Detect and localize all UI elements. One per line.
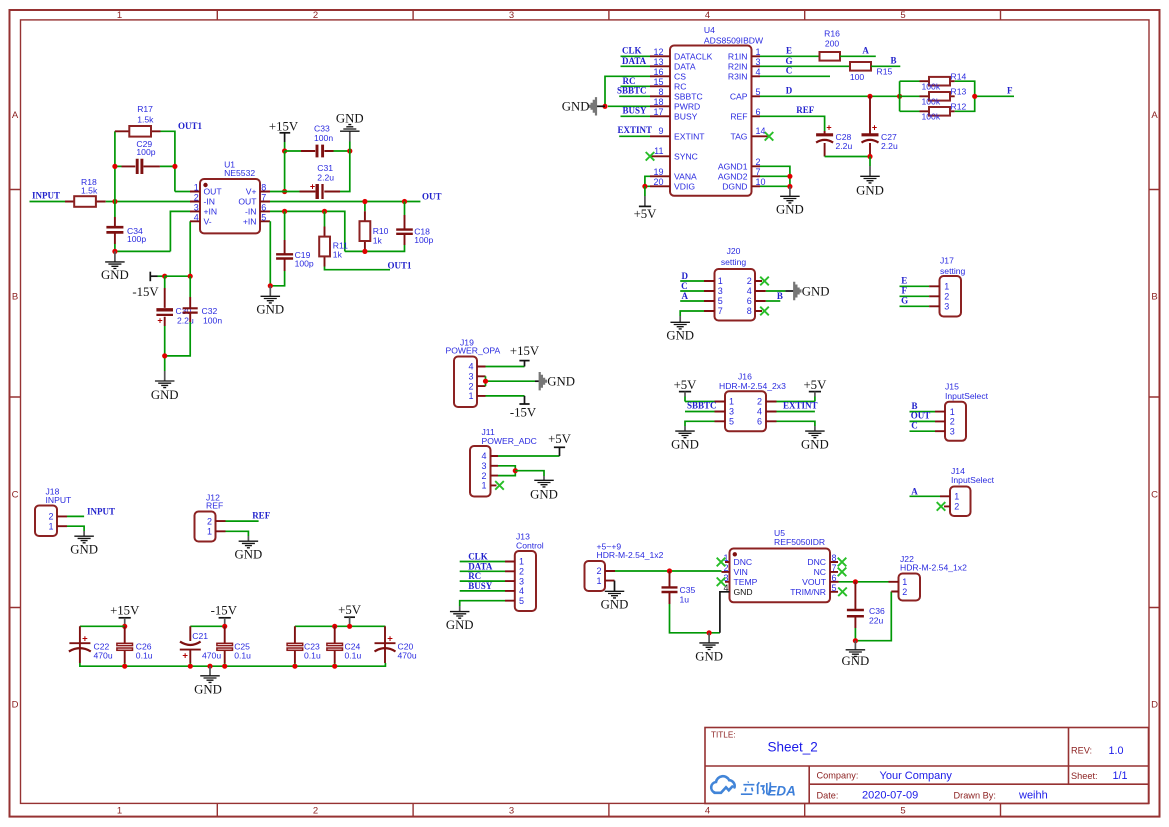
junction C23 bottom: [292, 664, 297, 669]
capacitor C36: [847, 582, 885, 628]
svg-text:-15V: -15V: [211, 603, 238, 617]
svg-text:DGND: DGND: [722, 181, 747, 191]
junction C19 tap: [282, 209, 287, 214]
svg-text:470u: 470u: [94, 651, 113, 661]
svg-text:OUT: OUT: [238, 197, 257, 207]
svg-text:+5V: +5V: [803, 378, 827, 392]
svg-text:1: 1: [950, 407, 955, 417]
resistor R18: [65, 177, 106, 207]
svg-text:4: 4: [756, 67, 761, 77]
connector J11 POWER_ADC: [470, 427, 537, 496]
no-connect J20 pin2: [760, 277, 769, 286]
wire left feedback column: [114, 131, 116, 201]
ground J18: [70, 531, 98, 557]
svg-text:2: 2: [757, 397, 762, 407]
capacitor C18: [396, 202, 433, 246]
connector J18 INPUT: [35, 487, 72, 537]
wire pin1 entry: [175, 191, 190, 193]
resistor R17: [115, 104, 161, 137]
svg-text:B: B: [890, 56, 896, 66]
no-connect J11 pin1: [495, 481, 504, 490]
svg-text:+5V: +5V: [338, 603, 362, 617]
wire AGND rail: [760, 166, 790, 186]
ground C19: [256, 286, 284, 317]
svg-text:GND: GND: [530, 488, 558, 502]
svg-text:AGND2: AGND2: [718, 171, 748, 181]
wire J16 pin3 SBBTC: [685, 411, 715, 413]
svg-text:InputSelect: InputSelect: [951, 475, 995, 485]
wire pin6: [270, 211, 345, 251]
svg-text:InputSelect: InputSelect: [945, 391, 989, 401]
frame row letters right: [1151, 110, 1158, 711]
svg-text:2.2u: 2.2u: [177, 316, 194, 326]
junction C18 top: [402, 199, 407, 204]
svg-text:TITLE:: TITLE:: [711, 731, 736, 740]
capacitor C31 polarized: [300, 163, 341, 199]
svg-text:-15V: -15V: [132, 285, 159, 299]
svg-text:5: 5: [832, 583, 837, 593]
svg-text:J20: J20: [727, 246, 741, 256]
svg-text:REF: REF: [206, 501, 223, 511]
svg-text:D: D: [682, 271, 689, 281]
wire J12 pin2 REF: [226, 520, 259, 522]
wire J11 pins 3 2 mid: [498, 466, 515, 476]
svg-text:GND: GND: [70, 543, 98, 557]
ground J16 right: [801, 426, 829, 452]
svg-text:A: A: [911, 486, 918, 496]
svg-text:+IN: +IN: [243, 216, 257, 226]
svg-text:+5V: +5V: [674, 378, 698, 392]
svg-text:8: 8: [261, 183, 266, 193]
wire J17 pin1 E: [900, 285, 930, 287]
wire J12 pin1 gnd: [226, 531, 249, 536]
svg-text:GND: GND: [802, 284, 830, 298]
wire J11 gnd link: [515, 471, 544, 476]
ground C34: [101, 251, 129, 282]
wire J16 pin1: [685, 401, 715, 403]
svg-text:-IN: -IN: [245, 206, 256, 216]
svg-text:100k: 100k: [922, 97, 941, 107]
wire J19 pin1 -15V: [486, 395, 525, 397]
wire C28 bottom to gnd node: [825, 156, 870, 158]
wire J20 pin4 gnd: [766, 290, 786, 292]
junction +15V C33 tap: [282, 148, 287, 153]
junction C24 bottom: [332, 664, 337, 669]
connector J17 setting: [929, 256, 965, 317]
svg-text:HDR-M-2.54_1x2: HDR-M-2.54_1x2: [900, 563, 967, 573]
ground C36: [842, 641, 870, 668]
svg-text:A: A: [682, 291, 689, 301]
wire J20 pin5 A: [680, 300, 704, 302]
resistor R14: [920, 72, 967, 92]
svg-text:CAP: CAP: [730, 91, 748, 101]
svg-text:4: 4: [481, 451, 486, 461]
connector J15 InputSelect: [935, 381, 989, 441]
connector J13 Control: [505, 531, 544, 611]
wire R11 to OUT1: [325, 267, 391, 270]
wire R2IN G: [760, 65, 850, 67]
svg-text:CLK: CLK: [622, 45, 642, 55]
svg-text:setting: setting: [721, 257, 747, 267]
svg-text:E: E: [901, 276, 907, 286]
ground bank: [194, 666, 222, 696]
svg-text:BUSY: BUSY: [468, 581, 493, 591]
svg-text:1.0: 1.0: [1109, 745, 1124, 757]
wire J13 pin4 BUSY: [460, 590, 505, 592]
svg-text:DNC: DNC: [734, 557, 753, 567]
svg-text:GND: GND: [547, 375, 575, 389]
svg-text:100p: 100p: [295, 259, 314, 269]
svg-text:V-: V-: [204, 216, 212, 226]
svg-text:EXTINT: EXTINT: [674, 131, 705, 141]
wire J18 pin2 INPUT: [67, 515, 84, 517]
ground flag J19: [535, 372, 575, 390]
svg-text:2020-07-09: 2020-07-09: [862, 790, 918, 802]
no-connect U5 pin7: [838, 568, 847, 577]
ground C27 C28: [856, 157, 884, 198]
svg-text:GND: GND: [446, 618, 474, 632]
wire J18 pin1 gnd: [67, 526, 84, 531]
junction pin5 gnd node: [268, 283, 273, 288]
wire header pin2 to VIN: [615, 570, 722, 572]
svg-text:CLK: CLK: [468, 552, 488, 562]
junction C21 bottom: [188, 664, 193, 669]
frame row ticks left: [10, 190, 21, 608]
svg-text:2: 2: [313, 10, 318, 21]
capacitor C33: [285, 124, 350, 158]
svg-text:100n: 100n: [203, 316, 222, 326]
svg-text:5: 5: [519, 596, 524, 606]
svg-text:2: 2: [902, 587, 907, 597]
svg-text:GND: GND: [101, 268, 129, 282]
svg-text:R15: R15: [877, 67, 893, 77]
capacitor C22 polarized: [69, 626, 113, 663]
svg-text:2: 2: [48, 512, 53, 522]
junction U5 gnd rail: [707, 630, 712, 635]
ground J16 left: [671, 426, 699, 452]
svg-text:GND: GND: [666, 329, 694, 343]
wire bank rail2: [190, 625, 224, 627]
no-connect TAG: [765, 132, 774, 141]
svg-text:setting: setting: [940, 266, 966, 276]
svg-text:INPUT: INPUT: [87, 506, 115, 516]
svg-text:2: 2: [944, 292, 949, 302]
svg-text:GND: GND: [194, 683, 222, 697]
capacitor C19: [276, 211, 314, 271]
svg-text:C: C: [12, 490, 19, 501]
power +15V bank: [110, 603, 140, 626]
svg-text:3: 3: [944, 302, 949, 312]
junction C35 top: [667, 568, 672, 573]
wire C35 bottom to gnd rail: [670, 604, 720, 633]
svg-text:2: 2: [519, 567, 524, 577]
svg-text:REV:: REV:: [1071, 746, 1092, 756]
svg-text:R13: R13: [951, 87, 967, 97]
wire bank rail1: [80, 625, 125, 627]
wire R17 right to OUT1 corner: [161, 131, 175, 191]
svg-text:R12: R12: [951, 102, 967, 112]
junction D rail: [897, 94, 902, 99]
power +15V J19: [510, 344, 540, 367]
junction J19 gnd: [483, 379, 488, 384]
svg-text:100p: 100p: [414, 235, 433, 245]
svg-text:SYNC: SYNC: [674, 151, 698, 161]
svg-text:4: 4: [705, 806, 710, 817]
wire J19 pin4 +15V: [486, 366, 525, 368]
wire RC: [621, 85, 651, 87]
svg-text:2: 2: [313, 806, 318, 817]
wire J17 pin3 G: [900, 305, 930, 307]
svg-text:15: 15: [653, 77, 663, 87]
capacitor C24: [327, 626, 362, 663]
connector J19 POWER_OPA: [446, 338, 501, 407]
svg-text:TAG: TAG: [730, 131, 747, 141]
svg-text:1: 1: [48, 521, 53, 531]
svg-text:R17: R17: [137, 104, 153, 114]
svg-text:EXTINT: EXTINT: [618, 125, 653, 135]
connector J22 HDR-M-2.54_1x2: [889, 554, 968, 600]
svg-text:6: 6: [757, 417, 762, 427]
junction +15V bank: [122, 624, 127, 629]
capacitor C23: [287, 626, 321, 663]
svg-text:2.2u: 2.2u: [836, 141, 853, 151]
wire R1IN E: [760, 55, 820, 57]
svg-text:+15V: +15V: [110, 603, 140, 617]
svg-text:1: 1: [117, 10, 122, 21]
svg-text:7: 7: [261, 193, 266, 203]
svg-text:REF: REF: [252, 511, 271, 521]
wire C36 bottom rail: [855, 592, 891, 641]
svg-text:1: 1: [729, 397, 734, 407]
svg-text:5: 5: [900, 806, 905, 817]
svg-text:18: 18: [653, 97, 663, 107]
wire J15 pin3 C: [910, 430, 936, 432]
resistor R12: [920, 102, 967, 122]
svg-text:C: C: [911, 420, 918, 430]
wire -15V link: [165, 275, 191, 277]
wire pin7 OUT: [270, 201, 420, 203]
ground U5 left: [695, 633, 723, 664]
svg-text:5: 5: [729, 417, 734, 427]
resistor R11: [319, 211, 348, 266]
junction PWRD gnd: [602, 104, 607, 109]
wire EXTINT: [619, 135, 650, 137]
svg-text:3: 3: [481, 461, 486, 471]
svg-text:3: 3: [194, 203, 199, 213]
svg-text:19: 19: [653, 167, 663, 177]
svg-text:16: 16: [653, 67, 663, 77]
wire J11 pin4 +5V: [498, 455, 560, 457]
connector J14 InputSelect: [940, 466, 995, 516]
svg-text:weihh: weihh: [1018, 789, 1048, 801]
wire VANA VDIG: [645, 176, 650, 186]
junction +5V bank: [347, 624, 352, 629]
svg-text:GND: GND: [695, 650, 723, 664]
capacitor C27 polarized: [862, 96, 898, 156]
svg-text:D: D: [786, 85, 793, 95]
power +5V J16 left: [674, 378, 698, 402]
junction DGND: [787, 184, 792, 189]
svg-text:B: B: [777, 291, 783, 301]
capacitor C28 polarized: [816, 123, 852, 157]
svg-text:Your Company: Your Company: [880, 770, 953, 782]
power -15V J19: [510, 396, 537, 420]
junction -15V C32: [188, 274, 193, 279]
svg-text:DATA: DATA: [674, 61, 696, 71]
ground J13: [446, 606, 474, 632]
frame column ticks bottom: [217, 803, 1000, 816]
svg-text:REF: REF: [730, 111, 747, 121]
svg-text:3: 3: [718, 286, 723, 296]
svg-text:100k: 100k: [922, 112, 941, 122]
svg-text:D: D: [1151, 700, 1158, 711]
power +5V J11: [548, 432, 572, 456]
wire J16 pin6 gnd: [777, 421, 815, 426]
svg-text:1: 1: [902, 577, 907, 587]
svg-text:EXTINT: EXTINT: [783, 401, 818, 411]
ground flag PWRD: [562, 97, 605, 115]
svg-text:HDR-M-2.54_2x3: HDR-M-2.54_2x3: [719, 381, 786, 391]
svg-text:5: 5: [718, 296, 723, 306]
logo LCEDA cloud: [711, 776, 734, 793]
wire 100k left rail: [900, 81, 920, 111]
power +15V opamp: [269, 120, 299, 151]
svg-text:U4: U4: [704, 25, 715, 35]
svg-text:B: B: [12, 292, 18, 303]
svg-text:6: 6: [747, 296, 752, 306]
frame column numbers top: [117, 10, 906, 21]
wire J20 pin1 D: [680, 280, 704, 282]
svg-text:GND: GND: [151, 388, 179, 402]
svg-text:R2IN: R2IN: [728, 61, 748, 71]
junction C29 right: [172, 164, 177, 169]
svg-text:Company:: Company:: [817, 770, 859, 780]
svg-text:+: +: [157, 315, 162, 325]
connector J12 REF: [195, 493, 226, 542]
svg-text:2.2u: 2.2u: [881, 141, 898, 151]
svg-text:1u: 1u: [680, 594, 690, 604]
ic U5 REF5050IDR: [720, 528, 839, 633]
junction R10 top: [362, 199, 367, 204]
svg-text:DATACLK: DATACLK: [674, 51, 713, 61]
svg-text:1: 1: [117, 806, 122, 817]
svg-text:5: 5: [756, 87, 761, 97]
svg-text:GND: GND: [256, 303, 284, 317]
ground J12: [235, 536, 263, 562]
svg-text:G: G: [785, 56, 792, 66]
no-connect U5 pin8: [838, 558, 847, 567]
svg-text:VOUT: VOUT: [802, 577, 827, 587]
frame column ticks top: [217, 10, 1000, 20]
wire BUSY: [621, 115, 651, 117]
resistor R15: [850, 62, 893, 82]
svg-text:GND: GND: [734, 587, 753, 597]
svg-text:9: 9: [658, 126, 663, 136]
svg-text:Drawn By:: Drawn By:: [954, 790, 996, 800]
svg-text:C32: C32: [202, 306, 218, 316]
svg-text:2: 2: [950, 417, 955, 427]
wire R15 to B: [871, 65, 900, 67]
svg-text:G: G: [901, 296, 908, 306]
wire R18 to pin2 node: [106, 201, 190, 203]
svg-text:1: 1: [756, 47, 761, 57]
svg-text:R16: R16: [824, 29, 840, 39]
wire C31 right to gnd column: [340, 151, 350, 192]
svg-text:R14: R14: [951, 72, 967, 82]
frame row ticks right: [1149, 190, 1160, 608]
svg-text:C21: C21: [192, 631, 208, 641]
wire pin5 down: [269, 221, 271, 285]
svg-text:1k: 1k: [333, 250, 343, 260]
svg-text:J15: J15: [945, 381, 959, 391]
ground C30 C32: [151, 371, 179, 402]
title block frame: [705, 728, 1149, 804]
svg-text:4: 4: [747, 286, 752, 296]
svg-text:+5V: +5V: [548, 432, 572, 446]
svg-text:6: 6: [261, 203, 266, 213]
svg-text:ADS8509IBDW: ADS8509IBDW: [704, 35, 764, 45]
svg-text:A: A: [862, 45, 869, 55]
wire C18 bottom rail: [345, 245, 405, 251]
svg-text:+15V: +15V: [269, 120, 299, 134]
svg-text:2: 2: [481, 471, 486, 481]
svg-text:2.2u: 2.2u: [317, 172, 334, 182]
junction F rail: [972, 94, 977, 99]
ground header pin1: [601, 581, 629, 612]
junction bank gnd stem: [207, 664, 212, 669]
wire J17 pin2 F: [900, 295, 930, 297]
svg-text:Sheet_2: Sheet_2: [768, 740, 818, 755]
svg-text:1: 1: [194, 183, 199, 193]
svg-text:NC: NC: [814, 567, 826, 577]
svg-text:GND: GND: [671, 438, 699, 452]
svg-text:3: 3: [729, 407, 734, 417]
svg-text:POWER_ADC: POWER_ADC: [482, 436, 537, 446]
svg-text:3: 3: [509, 806, 514, 817]
svg-text:470u: 470u: [398, 651, 417, 661]
svg-text:V+: V+: [246, 187, 257, 197]
svg-text:470u: 470u: [202, 651, 221, 661]
svg-text:TEMP: TEMP: [734, 577, 758, 587]
svg-text:1: 1: [718, 276, 723, 286]
svg-text:8: 8: [747, 306, 752, 316]
capacitor C29: [115, 139, 175, 174]
svg-text:B: B: [1151, 292, 1157, 303]
svg-text:+: +: [387, 634, 393, 645]
svg-text:13: 13: [653, 57, 663, 67]
svg-text:GND: GND: [235, 548, 263, 562]
junction pin8 node: [282, 189, 287, 194]
svg-text:INPUT: INPUT: [32, 190, 60, 200]
svg-text:OUT: OUT: [204, 187, 223, 197]
wire PWRD: [608, 105, 650, 107]
svg-text:1: 1: [519, 557, 524, 567]
power +5V J16 right: [803, 378, 827, 402]
svg-text:14: 14: [756, 126, 766, 136]
svg-text:VDIG: VDIG: [674, 181, 695, 191]
svg-text:0.1u: 0.1u: [136, 651, 153, 661]
frame column numbers bottom: [117, 806, 906, 817]
svg-text:2: 2: [468, 381, 473, 391]
junction AGND2: [787, 174, 792, 179]
svg-text:GND: GND: [601, 598, 629, 612]
svg-text:REF5050IDR: REF5050IDR: [774, 537, 825, 547]
wire REF: [760, 116, 825, 131]
svg-text:GND: GND: [856, 183, 884, 197]
wire J16 pin5 gnd: [685, 421, 715, 426]
svg-text:100p: 100p: [127, 234, 146, 244]
svg-text:1.5k: 1.5k: [137, 114, 154, 124]
